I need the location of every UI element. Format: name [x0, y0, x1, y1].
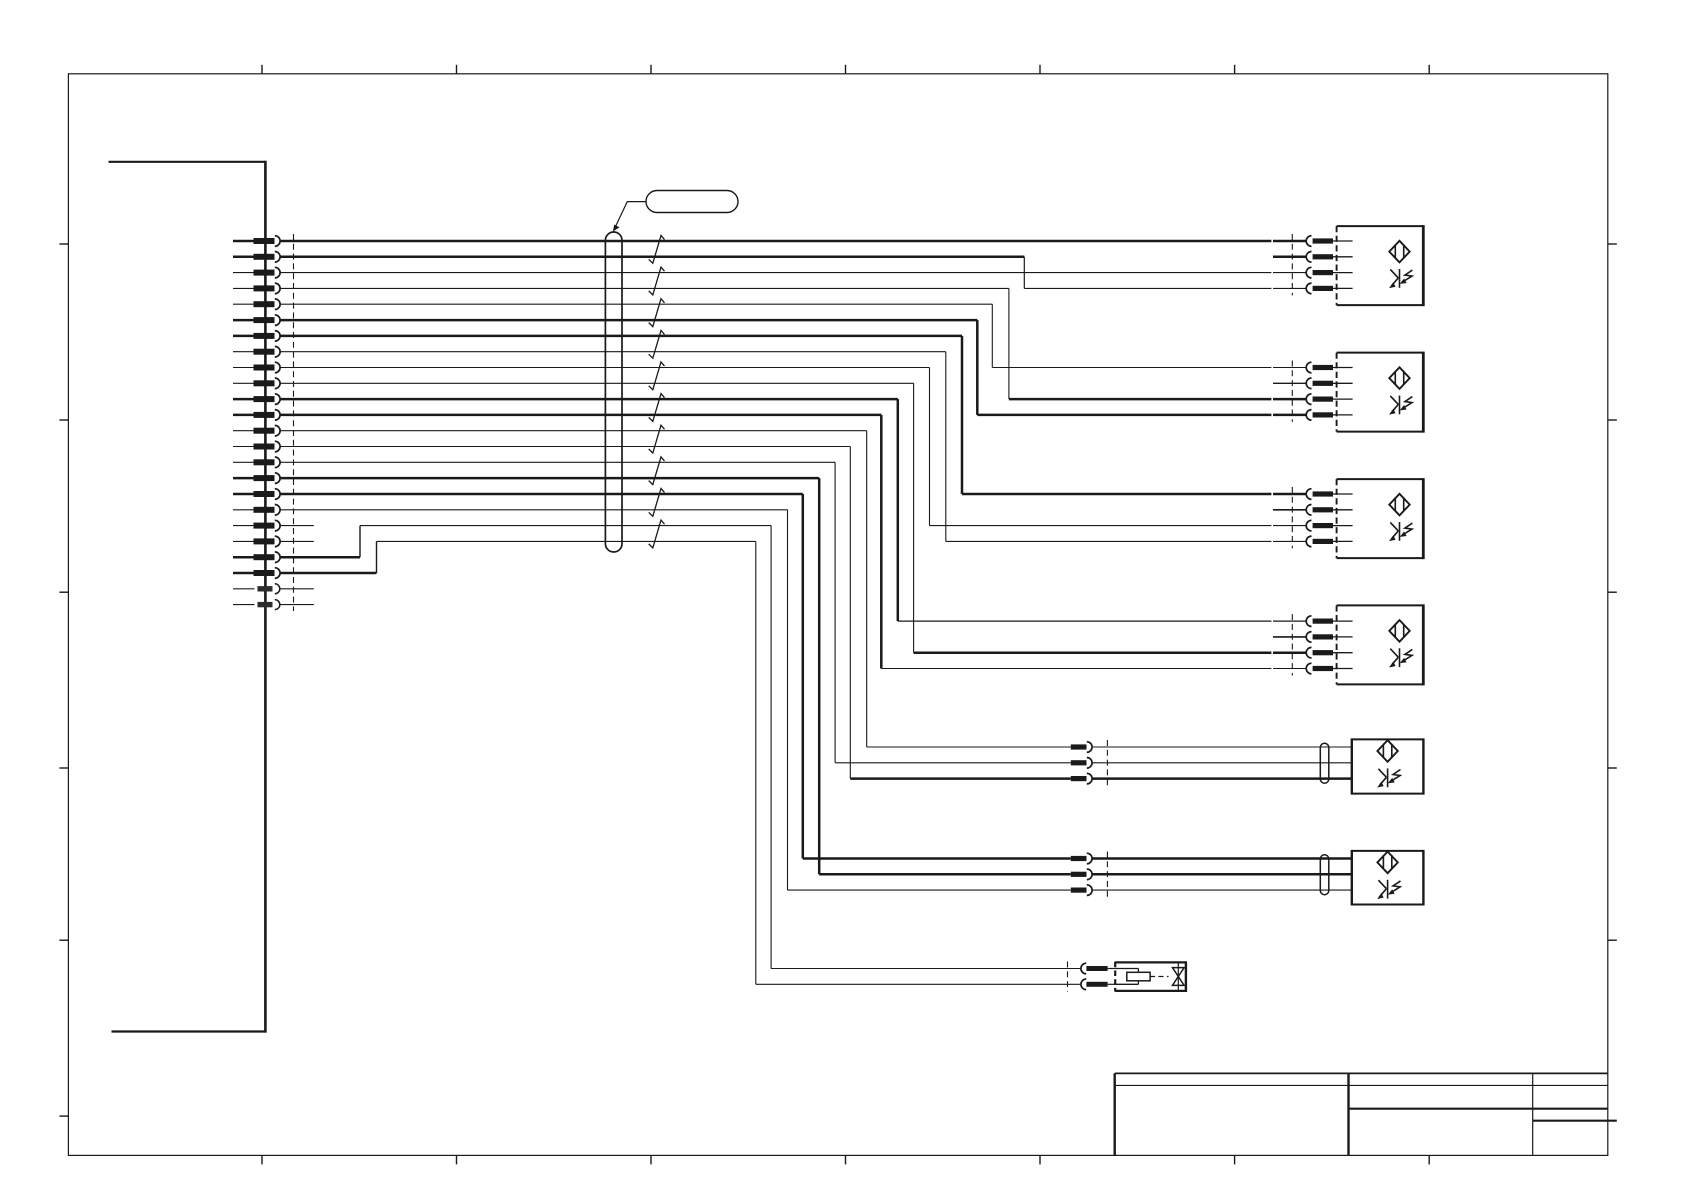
- cable core slash 5: [649, 362, 665, 390]
- connector X1 pin 3: [233, 267, 280, 278]
- sensor B4 box: [1337, 604, 1424, 685]
- sensor B1 pin 2: [1306, 252, 1352, 263]
- wire X1-13 to B5 pin1: [280, 431, 1071, 747]
- connector of valve Y1 boundary: [1067, 962, 1069, 992]
- connector X1 pin 8: [233, 346, 280, 357]
- sensor B5 box: [1352, 738, 1424, 794]
- connector X1 pin 19: [233, 520, 280, 531]
- connector X1 pin 18: [233, 505, 280, 516]
- controller unit box: [109, 161, 266, 1033]
- cable sheath marker W6: [1320, 855, 1329, 895]
- connector of sensor B3 boundary: [1291, 487, 1293, 548]
- sensor B4 photoelectric symbol: [1389, 620, 1412, 667]
- sensor B5 pin 3: [1071, 773, 1352, 784]
- connector X1 pin 11: [233, 394, 280, 405]
- sensor B3 photoelectric symbol: [1389, 494, 1412, 541]
- cable core slash 1: [649, 236, 665, 264]
- sensor B2 pin 4: [1306, 410, 1352, 421]
- connector X1 pin 9: [233, 362, 280, 373]
- wire X1-5 to B2 pin1 (brown): [280, 304, 1307, 367]
- sensor B4 pin 4: [1306, 663, 1352, 674]
- sensor B2 pin 1: [1306, 362, 1352, 373]
- sensor B1 pin 3: [1306, 267, 1352, 278]
- connector X1 pin 2: [233, 252, 280, 263]
- valve Y1 pin 2: [1081, 979, 1115, 990]
- sensor B1 pin 1: [1306, 236, 1352, 247]
- wire X1-7 to B3 pin1 (brown): [280, 336, 1307, 494]
- wire X1-6 to B2 pin4 (white): [280, 320, 1307, 415]
- connector X1 pin 10: [233, 378, 280, 389]
- wire stub B2 pin2: [1273, 382, 1307, 384]
- connector of sensor B4 boundary: [1291, 614, 1293, 675]
- connector of sensor B5 boundary: [1106, 740, 1108, 786]
- connector X1 pin 1: [233, 236, 280, 247]
- sensor B5 pin 2: [1071, 758, 1352, 769]
- connector X1 pin 6: [233, 315, 280, 326]
- connector X1 pin 4: [233, 283, 280, 294]
- cable core slash 2: [649, 267, 665, 295]
- connector X1 pin 20: [233, 536, 280, 547]
- wire stub B4 pin2: [1273, 636, 1307, 638]
- sensor B4 pin 1: [1306, 616, 1352, 627]
- connector X1 pin 5: [233, 299, 280, 310]
- sensor B2 pin 2: [1306, 378, 1352, 389]
- connector X1 pin 13: [233, 425, 280, 436]
- wire X1-11 to B4 pin1 (brown): [280, 399, 1307, 621]
- wire stub B1 pin2: [1273, 256, 1307, 259]
- cable core slash 3: [649, 299, 665, 327]
- sensor B3 pin 1: [1306, 489, 1352, 500]
- wire stub B3 pin2: [1273, 509, 1307, 511]
- sensor B5 photoelectric symbol: [1377, 740, 1400, 787]
- connector X1 pin 14: [233, 441, 280, 452]
- connector X1 pin 17: [233, 489, 280, 500]
- connector X1 pin 23: [233, 584, 280, 594]
- connector of sensor B6 boundary: [1106, 852, 1108, 898]
- wire X1-2 to B1 pin4 (white): [280, 257, 1307, 289]
- wire X1-23 stub: [280, 588, 314, 590]
- title block: [1115, 1073, 1617, 1155]
- sensor B1 pin 4: [1306, 283, 1352, 294]
- wire X1-18 to B6 pin3: [280, 510, 1071, 890]
- sensor B2 photoelectric symbol: [1389, 367, 1412, 414]
- sensor B6 photoelectric symbol: [1377, 852, 1400, 899]
- wire X1-15 to B5 pin2: [280, 462, 1071, 763]
- connector X1 pin 21: [233, 552, 280, 563]
- connector of sensor B1 boundary: [1291, 234, 1293, 295]
- cable sheath marker W5: [1320, 743, 1329, 783]
- sensor B2 box: [1337, 352, 1424, 433]
- sensor B6 pin 2: [1071, 869, 1352, 880]
- sensor B3 box: [1337, 478, 1424, 559]
- cable core slash 4: [649, 330, 665, 358]
- sensor B3 pin 3: [1306, 520, 1352, 531]
- sensor B6 box: [1352, 850, 1424, 906]
- sensor B1 photoelectric symbol: [1389, 241, 1412, 288]
- wire X1-16 to B6 pin2: [280, 478, 1071, 874]
- wire X1-24 stub: [280, 604, 314, 606]
- valve Y1 pin 1: [1081, 963, 1115, 974]
- valve Y1 body: [1115, 961, 1186, 992]
- wire X1-21 to valve Y1 pin1: [280, 526, 1081, 969]
- wire X1-3 to B1 pin3 (blue): [280, 272, 1307, 274]
- sensor B4 pin 2: [1306, 632, 1352, 643]
- wire X1-10 to B4 pin3 (blue): [280, 383, 1307, 652]
- connector X1 pin 12: [233, 410, 280, 421]
- wire X1-14 to B5 pin3: [280, 447, 1071, 779]
- sensor B2 pin 3: [1306, 394, 1352, 405]
- connector of sensor B2 boundary: [1291, 361, 1293, 422]
- sensor B6 pin 1: [1071, 853, 1352, 864]
- sensor B5 pin 1: [1071, 742, 1352, 753]
- cable core slash 7: [649, 425, 665, 453]
- sensor B3 pin 2: [1306, 505, 1352, 516]
- sensor B4 pin 3: [1306, 647, 1352, 658]
- wire X1-19 stub: [280, 525, 314, 527]
- wire X1-22 to valve Y1 pin2: [280, 541, 1081, 984]
- connector X1 pin 15: [233, 457, 280, 468]
- connector X1 (24 poles) with boundary line: [293, 234, 295, 611]
- connector X1 pin 22: [233, 568, 280, 579]
- cable W1 callout balloon: [613, 191, 738, 232]
- cable core slash 6: [649, 394, 665, 422]
- cable core slash 10: [649, 520, 665, 548]
- wire X1-17 to B6 pin1: [280, 494, 1071, 859]
- wire X1-9 to B3 pin3 (blue): [280, 368, 1307, 526]
- connector X1 pin 16: [233, 473, 280, 484]
- sensor B6 pin 3: [1071, 885, 1352, 896]
- connector X1 pin 7: [233, 331, 280, 342]
- wire X1-4 to B2 pin3 (blue): [280, 288, 1307, 399]
- wire X1-8 to B3 pin4 (white): [280, 352, 1307, 542]
- wire X1-1 to B1 pin1 (brown): [280, 240, 1307, 243]
- wire X1-20 stub: [280, 540, 314, 542]
- sensor B3 pin 4: [1306, 536, 1352, 547]
- sensor B1 box: [1337, 225, 1424, 306]
- connector X1 pin 24: [233, 600, 280, 610]
- wire X1-12 to B4 pin4 (white): [280, 415, 1307, 669]
- cable sheath marker W1: [605, 232, 622, 552]
- cable core slash 8: [649, 457, 665, 485]
- cable core slash 9: [649, 489, 665, 517]
